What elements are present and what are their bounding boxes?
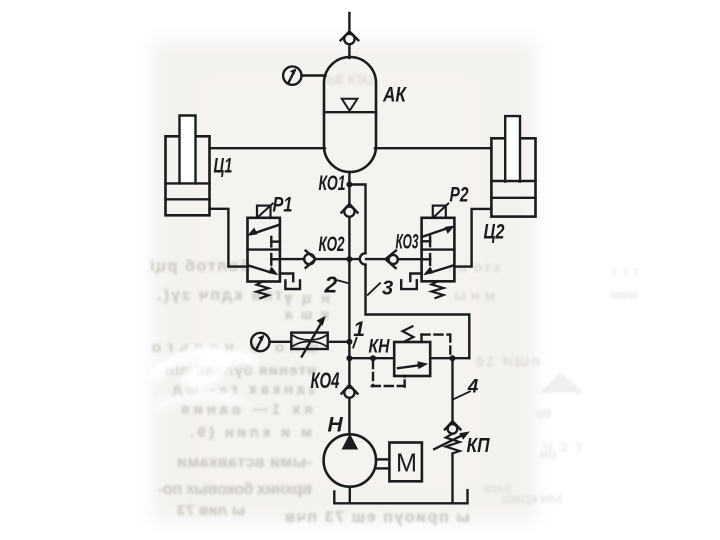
svg-text:чб: чб bbox=[536, 406, 552, 421]
svg-text:КП: КП bbox=[467, 435, 491, 457]
svg-text:-ыми вставками: -ыми вставками bbox=[177, 454, 312, 471]
svg-text:КО2: КО2 bbox=[319, 233, 345, 256]
svg-text:нц: нц bbox=[540, 446, 556, 461]
svg-text:Ц1: Ц1 bbox=[214, 155, 233, 178]
svg-text:Р2: Р2 bbox=[450, 184, 469, 207]
svg-text:вина: вина bbox=[610, 287, 639, 302]
svg-text:3: 3 bbox=[382, 277, 393, 299]
svg-text:КН: КН bbox=[369, 337, 391, 358]
svg-text:КО1: КО1 bbox=[319, 172, 346, 195]
svg-text:врхних боковых по-: врхних боковых по- bbox=[158, 481, 312, 498]
svg-text:ЬЕ КЗЦ: ЬЕ КЗЦ bbox=[327, 72, 374, 87]
svg-text:КО3: КО3 bbox=[396, 231, 419, 254]
svg-text:мны: мны bbox=[454, 287, 495, 303]
svg-text:нцγ: нцγ bbox=[283, 290, 330, 307]
svg-text:2: 2 bbox=[324, 271, 338, 297]
svg-text:Р1: Р1 bbox=[273, 194, 293, 217]
svg-text:вшд: вшд bbox=[484, 480, 512, 495]
svg-text:М: М bbox=[396, 448, 417, 478]
svg-text:1: 1 bbox=[353, 318, 365, 341]
svg-text:ы приоуп еш 73 пчв: ы приоуп еш 73 пчв bbox=[285, 509, 470, 526]
svg-text:тіг: тіг bbox=[611, 264, 640, 279]
svg-text:ы лив 73: ы лив 73 bbox=[177, 502, 245, 519]
svg-text:ях 1— вания: ях 1— вания bbox=[181, 401, 313, 418]
svg-text:АК: АК bbox=[382, 84, 408, 107]
svg-text:4: 4 bbox=[467, 376, 479, 397]
svg-text:Ц2: Ц2 bbox=[484, 221, 505, 244]
svg-text:Н: Н bbox=[328, 414, 344, 437]
svg-text:КО4: КО4 bbox=[311, 368, 340, 393]
